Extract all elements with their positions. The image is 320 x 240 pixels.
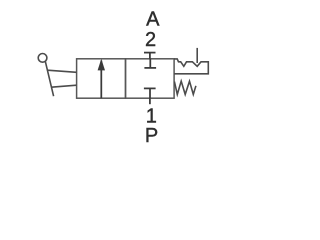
lever top link	[47, 70, 76, 72]
port 1 connection stub	[149, 98, 151, 104]
svg-text:P: P	[145, 125, 158, 147]
svg-text:A: A	[146, 8, 160, 30]
flow arrow head	[98, 59, 105, 71]
roller circle	[38, 54, 47, 63]
return spring	[174, 81, 196, 94]
blocked port T top crossbar	[144, 67, 156, 69]
detent pin	[196, 48, 198, 63]
port 2 connection stub	[149, 53, 151, 59]
flow arrow stem	[100, 61, 102, 99]
valve body right cell	[126, 59, 175, 98]
lever bottom link	[51, 85, 76, 87]
blocked port T top stem	[149, 59, 151, 68]
port 2 terminal dash	[144, 52, 156, 54]
lever arm	[45, 61, 53, 96]
blocked port T bottom crossbar	[144, 87, 156, 89]
valve body left cell	[77, 59, 126, 98]
detent notch outline	[174, 59, 208, 74]
svg-text:1: 1	[146, 105, 157, 127]
svg-text:2: 2	[145, 29, 156, 51]
blocked port T bottom stem	[149, 88, 151, 98]
